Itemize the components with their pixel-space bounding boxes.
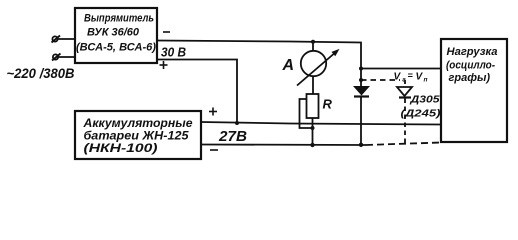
- svg-text:Д305: Д305: [409, 94, 439, 106]
- svg-text:(ВСА-5, ВСА-6): (ВСА-5, ВСА-6): [76, 42, 156, 54]
- svg-text:A: A: [282, 57, 295, 74]
- svg-text:R: R: [323, 97, 333, 112]
- svg-text:(НКН-100): (НКН-100): [84, 141, 158, 155]
- svg-text:~220 /380В: ~220 /380В: [7, 66, 75, 81]
- svg-text:п: п: [424, 76, 428, 83]
- svg-text:30 В: 30 В: [161, 45, 186, 60]
- svg-text:Выпрямитель: Выпрямитель: [84, 13, 154, 25]
- svg-text:(Д245): (Д245): [401, 108, 442, 120]
- svg-text:27В: 27В: [218, 129, 247, 145]
- svg-text:графы): графы): [449, 72, 491, 84]
- svg-text:(осцилло-: (осцилло-: [446, 60, 495, 72]
- svg-text:Нагрузка: Нагрузка: [447, 46, 498, 58]
- svg-text:ВУК 36/60: ВУК 36/60: [87, 27, 140, 39]
- svg-text:=: =: [408, 71, 414, 81]
- svg-text:г: г: [402, 76, 406, 83]
